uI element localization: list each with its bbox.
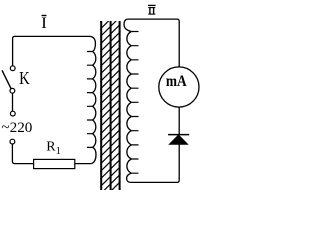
resistor R1 [34,159,75,168]
wire: meter to diode [178,107,180,134]
primary coil cusp ticks [87,52,93,148]
wire: primary top [13,36,91,65]
transformer core (laminated, hatched) [100,1,121,210]
diode D triangle [169,135,188,144]
primary coil L1 (9 turns) [90,36,96,163]
source terminal upper [10,111,15,116]
milliammeter mA [159,67,199,107]
secondary coil L2 (12 turns) [124,19,131,182]
wire: secondary top to mA meter [127,19,179,67]
source terminal lower [10,139,15,144]
label R1 [46,140,61,157]
switch K blade [2,70,12,89]
wire: diode to bottom right corner and back to coil [131,144,179,182]
svg-text:mA: mA [166,73,187,90]
switch K bottom contact [10,88,15,93]
svg-text:I: I [41,15,47,32]
switch K top contact [10,66,15,71]
label I (primary winding) [41,15,47,32]
svg-text:K: K [19,68,30,88]
svg-text:1: 1 [56,146,61,157]
label II (secondary winding) [148,5,156,14]
diode D cathode bar [168,134,189,136]
wire: R1 to primary coil bottom [75,163,92,165]
wire: lower terminal down and right to R1 [12,144,33,164]
wire: switch to upper source terminal [12,93,14,111]
core left lamination bar [100,21,102,190]
svg-text:~220: ~220 [1,120,32,136]
secondary coil cusp ticks [131,32,138,174]
core right lamination bar [119,21,121,190]
core middle lamination bar [110,21,112,190]
